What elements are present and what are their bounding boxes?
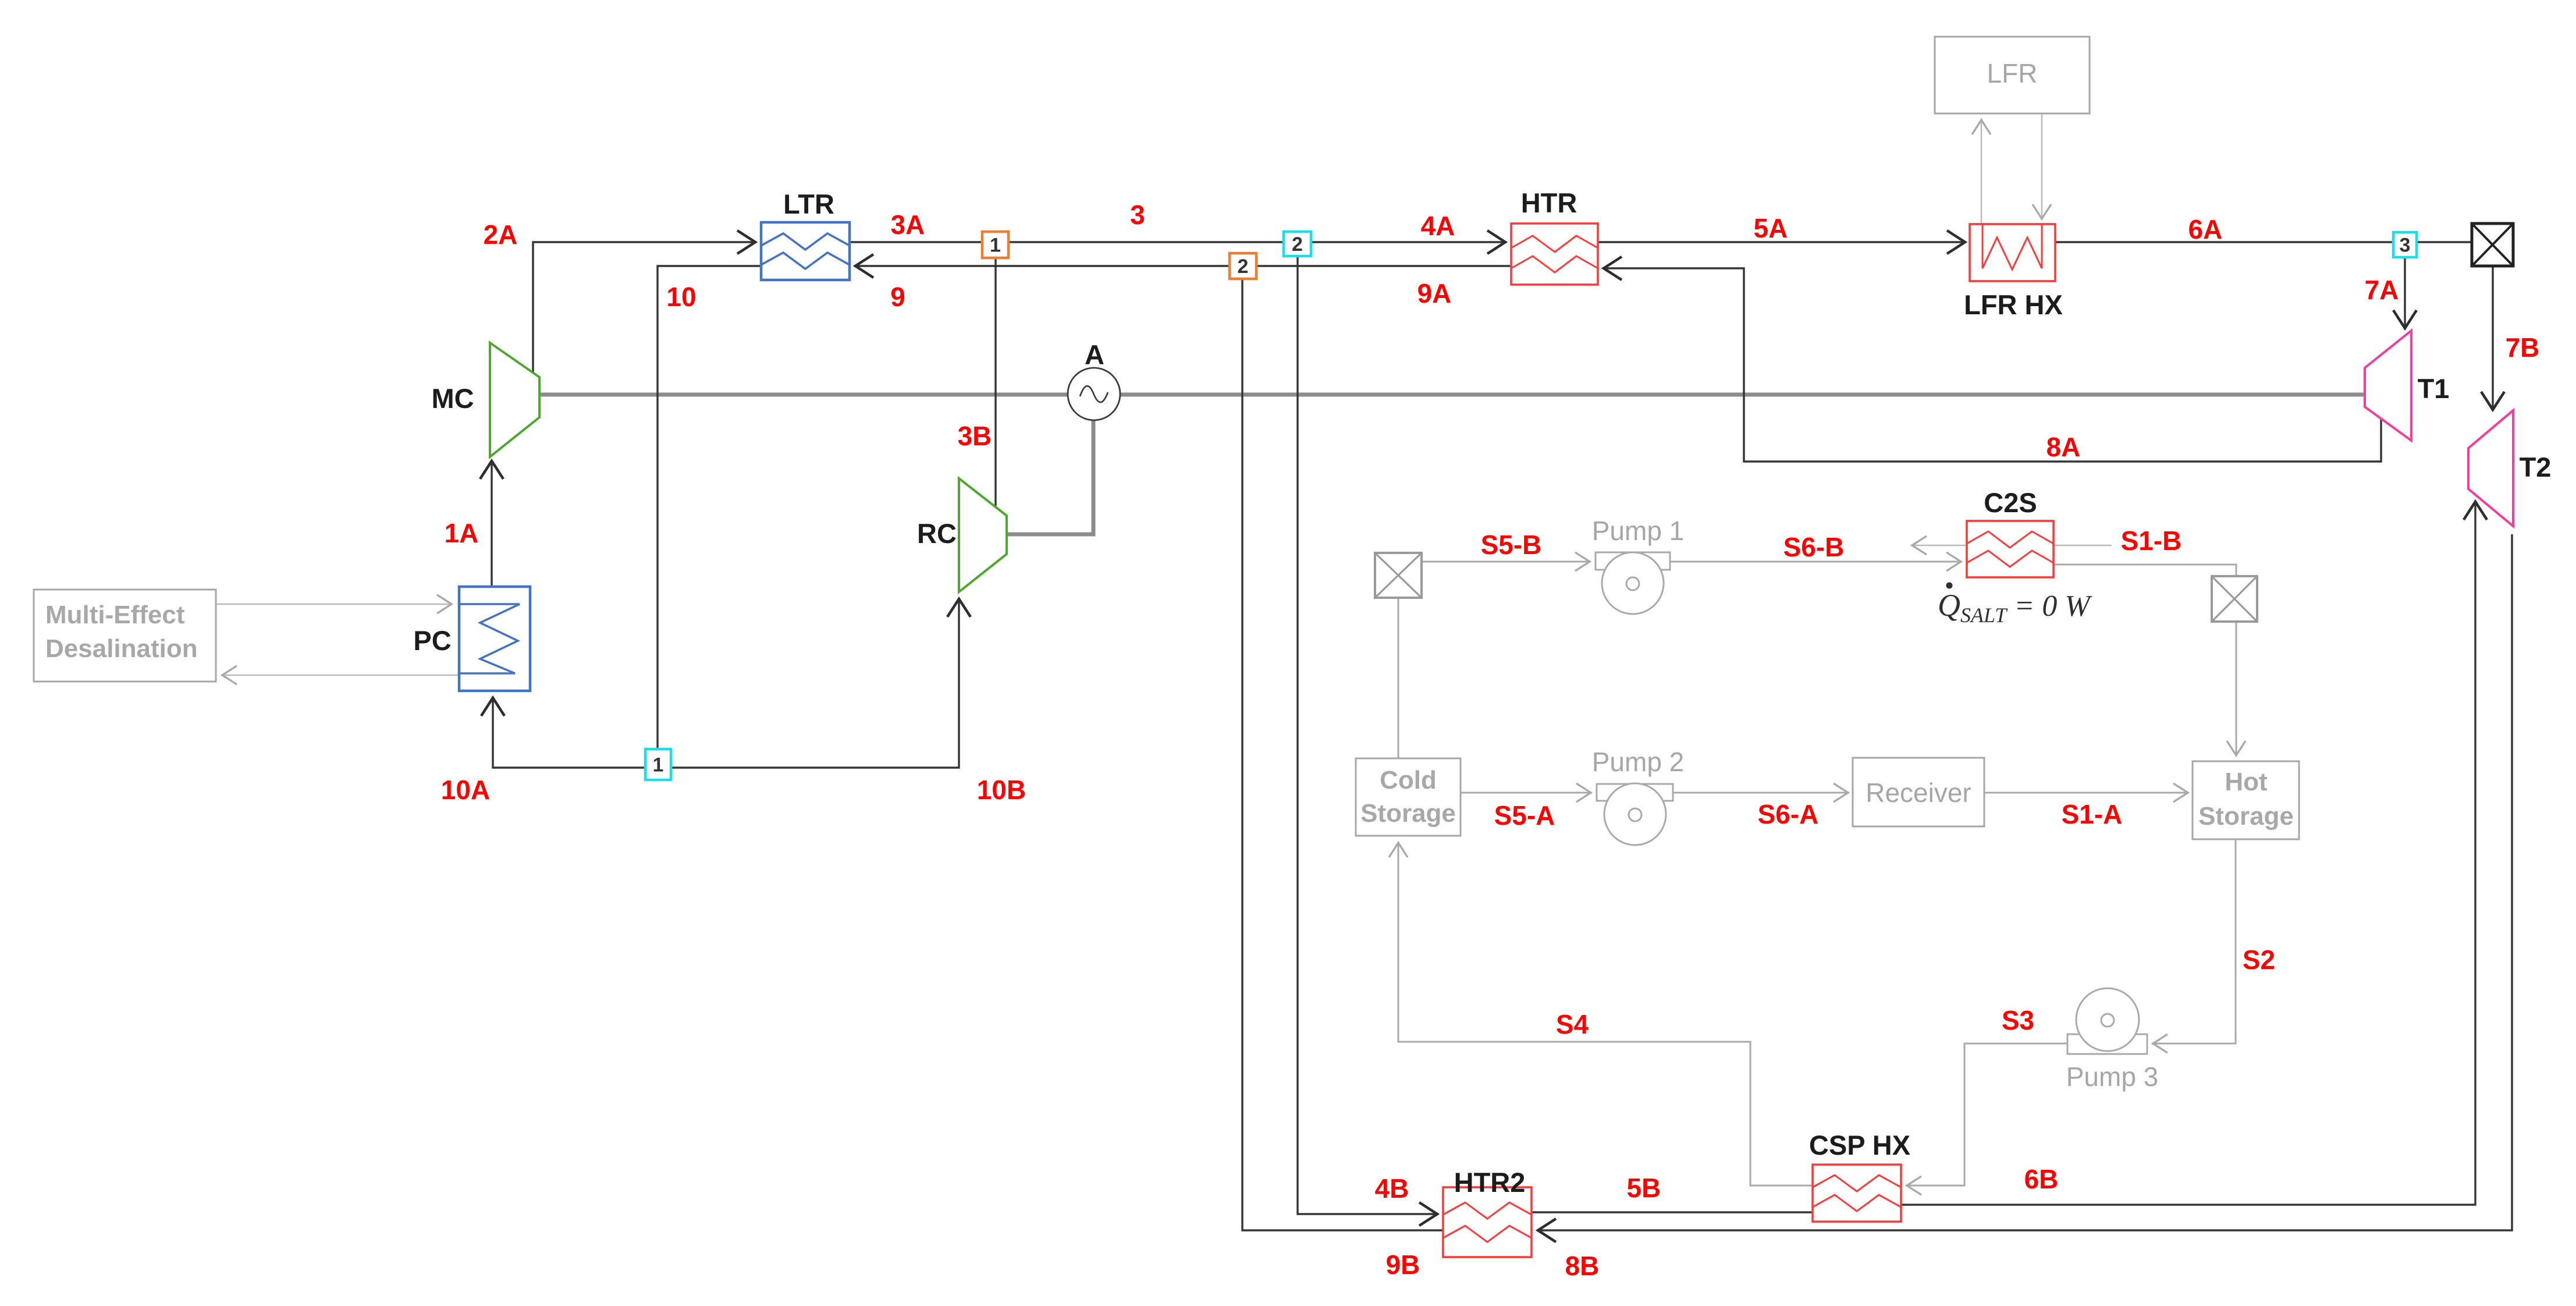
svg-text:7A: 7A <box>2365 275 2399 305</box>
wire MED to PC <box>216 604 453 605</box>
svg-text:Multi-Effect: Multi-Effect <box>45 601 185 629</box>
wire 10B <box>658 598 959 768</box>
wire S5-B <box>1422 561 1591 563</box>
wire 4B <box>1298 256 1438 1214</box>
turbine T2 <box>2468 410 2513 526</box>
svg-text:Pump 2: Pump 2 <box>1592 747 1685 777</box>
svg-text:1A: 1A <box>445 518 479 548</box>
compressor RC <box>959 478 1007 592</box>
svg-text:Pump 3: Pump 3 <box>2066 1062 2159 1092</box>
wire 7B <box>2492 266 2493 411</box>
svg-text:S2: S2 <box>2243 945 2275 975</box>
svg-text:HTR2: HTR2 <box>1454 1167 1526 1198</box>
wire C2S to hot valve <box>2053 565 2236 575</box>
svg-text:S1-A: S1-A <box>2062 799 2123 829</box>
svg-text:S1-B: S1-B <box>2121 526 2182 556</box>
wire 6A <box>2055 241 2472 243</box>
svg-text:Pump 1: Pump 1 <box>1592 516 1685 546</box>
wire shaft RC-A <box>1005 419 1093 534</box>
valve crossed box hot salt <box>2212 576 2257 622</box>
wire 5B <box>1532 1211 1813 1213</box>
wire 6B <box>1901 501 2475 1205</box>
wire hot valve to Hot Storage <box>2236 622 2237 757</box>
node 3 cyan <box>2393 232 2417 257</box>
wire 8A-9A <box>1603 268 2381 462</box>
turbine T1 <box>2365 331 2411 441</box>
svg-text:Hot: Hot <box>2225 768 2268 796</box>
svg-text:RC: RC <box>917 518 957 549</box>
wire S5-A <box>1461 792 1592 794</box>
wire S2 <box>2152 839 2236 1044</box>
wire shaft MC-T1 <box>539 393 2365 397</box>
svg-text:A: A <box>1085 339 1104 370</box>
svg-text:T2: T2 <box>2520 452 2552 482</box>
box Cold Storage <box>1356 758 1461 836</box>
svg-text:5B: 5B <box>1627 1173 1661 1203</box>
svg-text:MC: MC <box>431 383 474 414</box>
wire S1-B stub <box>2053 545 2112 546</box>
heat exchanger LFR HX <box>1970 224 2055 281</box>
node 1 orange <box>982 232 1008 258</box>
wire LFR to LFR HX <box>2041 113 2043 220</box>
wire S4 <box>1398 842 1813 1186</box>
heat exchanger HTR <box>1511 223 1598 285</box>
heat exchanger HTR2 <box>1443 1187 1532 1257</box>
wire 5A <box>1598 241 1966 243</box>
svg-text:2: 2 <box>1292 233 1303 255</box>
wire 9 <box>854 265 1511 267</box>
wire 8B <box>1537 534 2512 1230</box>
svg-text:Receiver: Receiver <box>1866 778 1971 808</box>
wire 9B vertical <box>1242 279 1444 1230</box>
svg-text:6A: 6A <box>2188 214 2223 244</box>
svg-text:5A: 5A <box>1754 213 1788 243</box>
svg-text:LFR: LFR <box>1987 58 2038 88</box>
compressor MC <box>490 343 539 457</box>
box Multi-Effect Desalination <box>34 590 216 682</box>
wire 3A-3-4A <box>850 241 1506 243</box>
svg-text:S5-A: S5-A <box>1494 800 1555 831</box>
svg-text:2A: 2A <box>484 219 518 250</box>
svg-text:S3: S3 <box>2002 1005 2034 1035</box>
svg-text:1: 1 <box>990 235 1001 257</box>
svg-text:4B: 4B <box>1375 1173 1409 1204</box>
valve crossed box cold salt <box>1375 553 1422 598</box>
svg-text:10A: 10A <box>441 775 490 805</box>
pump Pump 1 <box>1596 552 1670 614</box>
svg-text:Storage: Storage <box>1360 799 1456 828</box>
heat exchanger LTR <box>761 222 850 280</box>
svg-text:3: 3 <box>1130 200 1145 230</box>
svg-text:T1: T1 <box>2418 373 2450 404</box>
wire S6-B <box>1670 561 1962 563</box>
node 1 cyan <box>645 749 671 780</box>
svg-text:3A: 3A <box>891 210 925 240</box>
heat exchanger CSP HX <box>1813 1165 1901 1222</box>
svg-text:10: 10 <box>666 282 696 312</box>
svg-text:8A: 8A <box>2046 432 2081 462</box>
svg-text:Cold: Cold <box>1380 766 1437 794</box>
heat exchanger C2S <box>1967 521 2053 577</box>
node 2 cyan <box>1284 232 1311 256</box>
svg-text:C2S: C2S <box>1984 487 2037 518</box>
valve crossed box 7B <box>2472 223 2513 266</box>
svg-text:9A: 9A <box>1417 278 1452 308</box>
svg-text:2: 2 <box>1238 255 1249 278</box>
svg-text:3B: 3B <box>958 421 992 451</box>
svg-text:3: 3 <box>2400 235 2411 257</box>
wire 2A <box>533 242 756 372</box>
heat exchanger PC <box>459 587 530 691</box>
svg-text:S6-A: S6-A <box>1758 799 1819 829</box>
label Q_SALT = 0 W <box>1938 583 2092 627</box>
wire S1-A <box>1984 792 2189 794</box>
wire 10 <box>658 266 761 768</box>
svg-text:Desalination: Desalination <box>45 634 198 663</box>
wire PC to MED <box>221 675 459 676</box>
svg-text:S4: S4 <box>1556 1009 1589 1039</box>
wire S1-B arrow out of C2S <box>1911 545 1967 546</box>
pump Pump 3 <box>2067 988 2147 1054</box>
svg-text:CSP HX: CSP HX <box>1809 1130 1910 1161</box>
svg-text:HTR: HTR <box>1521 187 1577 218</box>
wire S3 <box>1906 1044 2067 1186</box>
svg-text:9B: 9B <box>1386 1250 1420 1280</box>
wire 3B <box>994 258 996 506</box>
box Receiver <box>1853 758 1984 826</box>
svg-text:LTR: LTR <box>783 189 834 219</box>
svg-text:1: 1 <box>653 754 664 776</box>
wire cold valve to Cold Storage <box>1398 598 1399 758</box>
wire S6-A <box>1673 792 1849 794</box>
svg-text:QSALT = 0 W: QSALT = 0 W <box>1938 588 2092 627</box>
svg-text:10B: 10B <box>977 775 1026 805</box>
wire 7A <box>2404 257 2406 329</box>
generator A <box>1068 368 1120 420</box>
box Hot Storage <box>2193 761 2299 839</box>
svg-text:PC: PC <box>413 625 451 656</box>
svg-text:S5-B: S5-B <box>1481 530 1542 560</box>
wire 10A <box>493 697 658 768</box>
pump Pump 2 <box>1597 783 1673 845</box>
svg-text:7B: 7B <box>2506 332 2540 363</box>
svg-text:6B: 6B <box>2024 1164 2059 1194</box>
svg-text:4A: 4A <box>1421 211 1455 241</box>
svg-text:9: 9 <box>890 282 905 312</box>
wire 1A <box>491 460 492 587</box>
wire LFR HX to LFR <box>1981 119 1982 224</box>
svg-text:S6-B: S6-B <box>1783 532 1845 562</box>
svg-text:LFR HX: LFR HX <box>1964 289 2063 320</box>
box LFR <box>1935 37 2090 113</box>
svg-text:8B: 8B <box>1565 1251 1600 1281</box>
svg-text:Storage: Storage <box>2198 802 2294 831</box>
node 2 orange <box>1230 253 1256 279</box>
